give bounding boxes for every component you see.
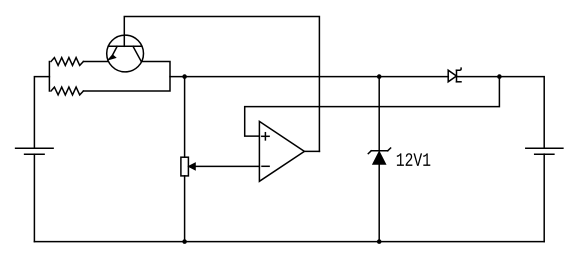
node: junction dot bottom rail / zener	[377, 239, 382, 244]
wire: right battery to bottom rail	[543, 154, 545, 242]
wire: non-inverting input feedback sense	[245, 77, 500, 137]
node: junction dot bottom rail / pot	[182, 239, 187, 244]
wire: bottom rail	[34, 241, 544, 243]
wire: branch down to potentiometer	[184, 77, 186, 158]
wire: left battery to bottom rail	[33, 154, 35, 241]
wire: left vertical joining resistor pair	[48, 62, 50, 92]
diode D1	[448, 68, 461, 82]
label: zener value 12V1	[397, 153, 430, 166]
wire: op-amp output to top feedback	[304, 150, 319, 152]
wire: emitter to top resistor	[83, 61, 108, 63]
node: junction dot zener branch	[377, 74, 382, 79]
resistor (bottom)	[51, 87, 83, 95]
node: junction dot sense wire	[497, 74, 502, 79]
wire: down to zener cathode	[378, 77, 380, 151]
potentiometer P1	[181, 157, 195, 176]
wire: wiper to op-amp inverting input	[196, 165, 260, 167]
wire: collector to right vertical of resistor pair	[83, 62, 170, 92]
wire: top feedback wire from op-amp output to transistor base	[124, 17, 319, 152]
wire: zener anode to bottom rail	[378, 164, 380, 241]
wire: diode cathode to right battery	[456, 77, 544, 149]
transistor Q1	[107, 35, 144, 72]
battery B1 (left)	[16, 148, 54, 154]
zener diode 12V1	[368, 148, 390, 164]
wire: potentiometer bottom to bottom rail	[184, 176, 186, 242]
resistor (top)	[51, 58, 83, 66]
wire: main mid rail from resistor network to diode anode	[170, 76, 448, 78]
op-amp U1	[259, 121, 304, 181]
wire: lead to left battery	[34, 77, 49, 149]
node A: junction dot main rail / pot branch	[182, 74, 187, 79]
battery B2 (right)	[526, 148, 563, 154]
